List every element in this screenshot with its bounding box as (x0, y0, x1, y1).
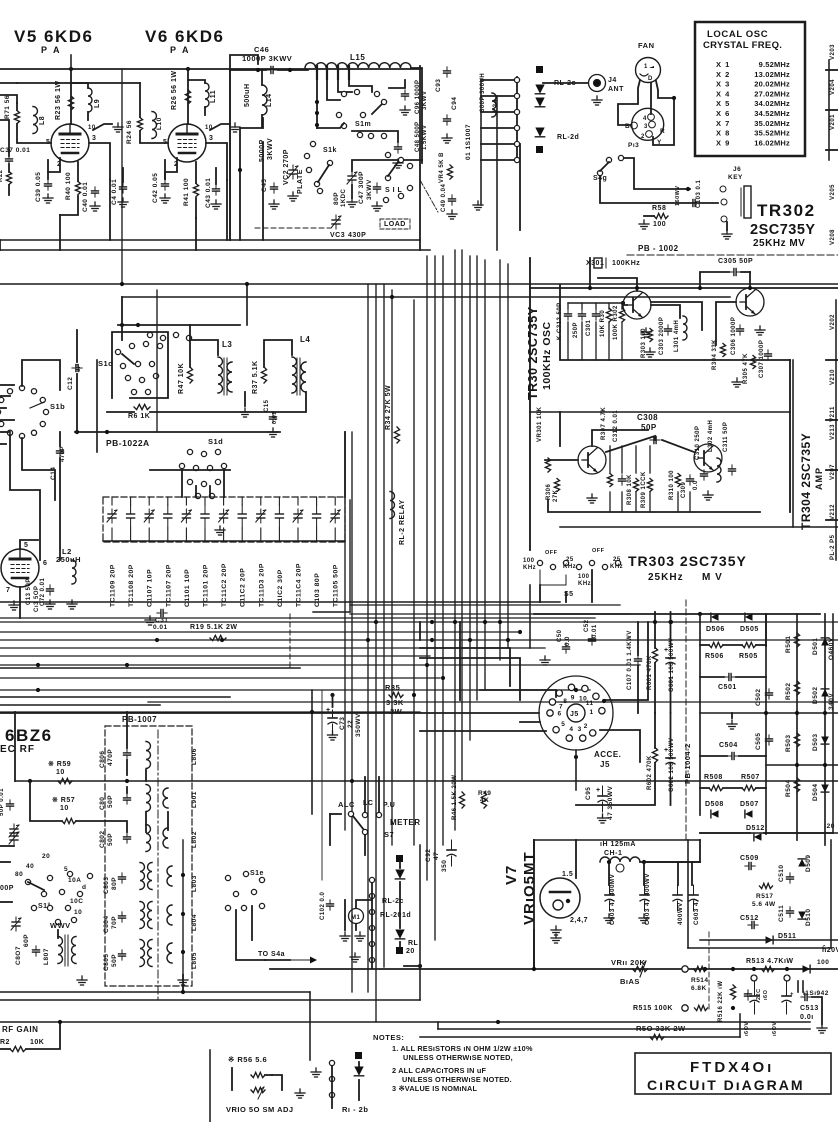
wire C46 left (230, 69, 266, 71)
wire ps gnd stub (731, 713, 733, 718)
ground 80P (347, 198, 357, 207)
svg-text:2W: 2W (390, 707, 403, 716)
wire S7 drop (329, 814, 331, 845)
svg-text:X 4: X 4 (716, 89, 730, 98)
svg-text:47: 47 (433, 852, 440, 860)
svg-text:TC1101 20P: TC1101 20P (203, 564, 210, 607)
svg-text:J5: J5 (570, 711, 579, 718)
svg-text:6: 6 (558, 711, 562, 718)
wire C12 drop (76, 330, 78, 362)
resistor R34 27K 5W (394, 427, 399, 443)
wire V5 pin3 (89, 143, 110, 180)
relay RL-2o armature square (536, 66, 543, 73)
wire S7 up2 (378, 777, 380, 812)
svg-text:V208: V208 (830, 229, 836, 245)
wire c39 (47, 160, 49, 172)
capacitor C94 (444, 115, 451, 125)
diode D510 (798, 912, 806, 920)
svg-text:TC1108 20P: TC1108 20P (128, 564, 135, 607)
tube V7 internals (550, 892, 570, 910)
wire 6bz6 drop3 (76, 821, 127, 832)
svg-text:X 1: X 1 (716, 60, 730, 69)
svg-text:R34 27K 5W: R34 27K 5W (385, 385, 392, 430)
coil bank left 3 (140, 940, 145, 967)
capacitor C14 470P (57, 447, 64, 457)
svg-text:C103 0.1: C103 0.1 (696, 179, 702, 208)
ground V7 (551, 926, 561, 935)
wire bottom rail1 (0, 991, 310, 993)
capacitor C bias (745, 990, 752, 1000)
svg-text:ĥ20V: ĥ20V (822, 945, 838, 954)
wire RL2o stub 2 (481, 95, 514, 97)
ground ps mid (727, 720, 737, 729)
node c601 top (668, 620, 672, 624)
wire v5 cath down (59, 215, 61, 250)
wire C513 gnd (812, 997, 822, 1024)
svg-text:D507: D507 (740, 801, 759, 808)
capacitor C92 47 350WV electrolytic (447, 840, 456, 866)
capacitor C47 (374, 183, 381, 193)
wire reg box right (830, 840, 832, 948)
wire R6 row (107, 411, 134, 413)
svg-text:C301: C301 (586, 319, 592, 336)
wire bus j5col (529, 585, 531, 648)
svg-text:C303 2000P: C303 2000P (659, 317, 665, 355)
wire s1a stub2 (0, 901, 12, 903)
ground C49b (447, 210, 457, 219)
svg-text:V7: V7 (503, 865, 520, 885)
wire J5 pin2 line (600, 730, 640, 762)
svg-text:S I L: S I L (385, 187, 403, 194)
wire pi-net bottom (0, 239, 420, 241)
resistor R517 5.6 4W (760, 883, 773, 888)
svg-text:R309 1CCK: R309 1CCK (641, 471, 647, 508)
wire bias bottom (420, 1036, 740, 1038)
svg-text:C603 47 400WV: C603 47 400WV (644, 873, 651, 925)
wire bus v8 (442, 256, 444, 845)
wire bus v2 (375, 284, 377, 1022)
node ps h2 b (823, 763, 827, 767)
svg-text:S7: S7 (384, 830, 394, 839)
capacitor C501 (725, 674, 735, 681)
wire S1b radial 5 (0, 431, 10, 433)
node cross 9 (125, 663, 129, 667)
svg-text:C14: C14 (50, 467, 57, 480)
capacitor C95 electrolytic (596, 786, 607, 812)
svg-text:9: 9 (571, 695, 575, 702)
wire S7 up1 (364, 777, 366, 812)
wire S7 down (364, 835, 366, 855)
svg-text:C49 0.04: C49 0.04 (441, 183, 447, 212)
wire rl2b col (331, 1066, 333, 1108)
resistor R302 100K (619, 308, 624, 322)
svg-text:L9: L9 (94, 99, 101, 108)
node rec rail b (125, 779, 129, 783)
ground C72 (45, 600, 55, 609)
wire bottom rail2 (0, 999, 420, 1001)
wire J5 pin7 line (0, 712, 539, 714)
ground J4 (592, 96, 602, 105)
svg-text:M V: M V (702, 572, 723, 583)
ground TR303 rail (587, 494, 597, 503)
svg-text:50P: 50P (111, 954, 118, 967)
svg-text:470P: 470P (107, 749, 114, 766)
svg-text:BıAS: BıAS (620, 977, 640, 986)
coil L302 4mH (717, 458, 721, 482)
svg-text:3KWV: 3KWV (422, 91, 428, 110)
connector FAN pins (640, 64, 654, 82)
wire left reg drop (533, 840, 535, 967)
svg-text:C93: C93 (435, 79, 442, 92)
trimmer capacitor TC1105 (330, 509, 340, 523)
capacitor C601 100 500WV electrolytic (664, 645, 675, 678)
diode D507 (745, 810, 753, 818)
svg-text:R49: R49 (478, 790, 491, 797)
svg-text:X 7: X 7 (716, 119, 730, 128)
svg-text:4: 4 (569, 726, 573, 733)
svg-text:V5 6KD6: V5 6KD6 (14, 27, 93, 46)
node ps h2 a (795, 763, 799, 767)
diode D512 (754, 833, 762, 841)
wire bus v20 (96, 360, 98, 452)
svg-text:FTDX4Oı: FTDX4Oı (690, 1059, 774, 1076)
capacitor C802 50P (124, 833, 131, 843)
svg-text:7: 7 (6, 587, 10, 594)
wire right mid (560, 526, 838, 528)
svg-text:R304 33K: R304 33K (712, 339, 718, 370)
coil bank sec 2 (167, 905, 172, 925)
wire right edge stub 6 (826, 469, 838, 471)
wire L14 down (262, 142, 264, 240)
wire sec col (167, 812, 169, 830)
svg-text:L302 4mH: L302 4mH (708, 420, 714, 452)
wire L14 link (262, 118, 264, 128)
svg-text:100: 100 (523, 558, 535, 564)
wire right edge stub 7 (826, 519, 838, 521)
coil L-2 relay (390, 492, 395, 519)
svg-text:Pı3: Pı3 (628, 142, 639, 149)
node VC2 top (238, 168, 242, 172)
svg-text:C806: C806 (99, 750, 106, 768)
node bias left (532, 967, 536, 971)
wire bus v15 (507, 264, 509, 648)
resistor R58 100 (654, 213, 668, 218)
node cross 2 (453, 620, 457, 624)
svg-text:C47 300P: C47 300P (358, 171, 365, 204)
resistor R514 6.8K (694, 966, 707, 971)
svg-text:V201: V201 (830, 114, 836, 130)
svg-text:160WV: 160WV (675, 185, 681, 206)
svg-text:J5: J5 (600, 760, 610, 769)
node cross 4 (483, 620, 487, 624)
resistor R59 (58, 778, 72, 783)
svg-text:D504: D504 (812, 783, 819, 801)
wire tr30x mid (530, 411, 790, 413)
wire ps edge v (832, 614, 834, 833)
capacitor C510 (787, 873, 794, 883)
tube V4 driver (1, 549, 39, 587)
capacitor C312 0.01 (619, 475, 626, 485)
tube V7 VR105MT (540, 878, 580, 918)
diode D508 (711, 810, 719, 818)
wire L806 drop (145, 770, 147, 781)
node cross 7 (366, 638, 370, 642)
svg-text:D: D (648, 76, 653, 82)
svg-text:2SC735Y: 2SC735Y (750, 222, 816, 238)
wire osc bus (560, 285, 790, 360)
svg-text:4K: 4K (480, 797, 489, 804)
ground V6 cathode (160, 194, 170, 203)
svg-text:VRIO 5O SM ADJ: VRIO 5O SM ADJ (226, 1105, 294, 1114)
wire R58 gnd (644, 215, 654, 217)
wire right top drop (419, 66, 421, 250)
wire rl2b arm (358, 1062, 360, 1066)
wire bus joint (419, 622, 421, 640)
node cross 1 (430, 638, 434, 642)
svg-text:1KDC: 1KDC (341, 188, 347, 207)
node osc rail c (698, 286, 702, 290)
wire S1b radial 6 (0, 443, 6, 445)
svg-text:O460V: O460V (828, 637, 835, 660)
svg-text:R508: R508 (704, 774, 723, 781)
resistor VR511 20K pot (633, 966, 648, 971)
wire S5 drops (539, 585, 541, 602)
wire V5 plate lead (70, 69, 72, 124)
wire bus h2 (350, 613, 630, 615)
connector J4 ANT outer (589, 75, 606, 92)
wire left in1 (0, 120, 9, 152)
svg-text:KHz: KHz (563, 564, 576, 570)
wire reg box left (687, 840, 689, 948)
wire V6 grid2 (140, 131, 168, 143)
wire meter link (356, 900, 372, 908)
node bias j1 (752, 967, 756, 971)
resistor R30 10K (606, 308, 611, 322)
resistor R601 470K (652, 648, 657, 663)
node cross 20 (731, 1006, 735, 1010)
svg-text:FAN: FAN (638, 41, 655, 50)
svg-text:NOTES:: NOTES: (373, 1033, 404, 1042)
svg-text:C505: C505 (755, 732, 762, 750)
svg-text:C603 47: C603 47 (693, 898, 700, 925)
svg-text:VC3: VC3 (330, 232, 345, 239)
ground V7 main (551, 934, 561, 943)
svg-text:R515 100K: R515 100K (633, 1005, 673, 1012)
wire rl2c arm (399, 862, 401, 868)
wire r505 lead (723, 644, 742, 646)
wire s1e drop1 (236, 910, 265, 960)
wire 6bz6 drop2 (30, 781, 62, 821)
transistor TR302 (736, 288, 764, 316)
relay RL-2c armature square (396, 855, 403, 862)
svg-text:47 350WV: 47 350WV (607, 785, 614, 820)
node ch1 b (642, 860, 646, 864)
svg-text:V203: V203 (830, 44, 836, 60)
capacitor C12 3P (72, 365, 82, 372)
node cross 3 (468, 638, 472, 642)
wire bus h5 (0, 639, 838, 641)
svg-text:ALC: ALC (338, 800, 355, 809)
svg-text:Rı - 2b: Rı - 2b (342, 1105, 368, 1114)
wire C46 right (278, 69, 308, 71)
wire S1b radial 1 (0, 384, 14, 386)
wire L14 down (240, 115, 262, 240)
wire bus v19 (156, 290, 158, 432)
wire bus v10 (461, 250, 463, 780)
resistor R515 100K (695, 1005, 708, 1010)
wire V6 plate lead (187, 69, 189, 124)
transistor TR303 (578, 446, 606, 474)
svg-text:ACCE.: ACCE. (594, 750, 621, 759)
wire m1 col (344, 900, 346, 930)
svg-text:2 ALL CAPACıTORS IN uF: 2 ALL CAPACıTORS IN uF (392, 1066, 486, 1075)
wire TC box right (349, 500, 351, 612)
svg-text:R37 5.1K: R37 5.1K (252, 360, 259, 394)
wire D512 row2 (764, 832, 833, 834)
wire coil bank riser (182, 840, 184, 975)
capacitor C509 (745, 863, 755, 870)
ground V5 g2 (113, 123, 123, 132)
svg-text:+: + (596, 787, 601, 794)
capacitor C73 22 350WV electrolytic (326, 707, 337, 730)
svg-text:※ R57: ※ R57 (52, 796, 75, 804)
wire bus h3 (0, 621, 838, 623)
wire PB-1002 dashed top (627, 254, 838, 256)
wire amp comp stubs bottom (610, 492, 690, 512)
coil T806 (146, 742, 151, 769)
svg-text:RL-2 RELAY: RL-2 RELAY (399, 499, 406, 545)
wire VC3 dashes (255, 227, 330, 229)
node cross 10 (36, 688, 40, 692)
resistor R602 470K (652, 748, 657, 763)
svg-text:L805: L805 (191, 952, 198, 969)
ground J6 (722, 230, 732, 239)
node cross 16 (574, 688, 578, 692)
svg-text:B: B (625, 123, 630, 130)
coil bank sec 1 (167, 866, 172, 886)
wire bias dashed v (708, 932, 710, 1010)
node cross 24 (672, 96, 676, 100)
wire to54a line (265, 959, 290, 961)
relay RL-2d armature (536, 146, 543, 153)
svg-text:3: 3 (578, 726, 582, 733)
svg-text:25KHz: 25KHz (648, 572, 684, 583)
wire wwv link (57, 930, 59, 938)
svg-text:C73: C73 (339, 717, 346, 730)
svg-text:C310 250P: C310 250P (695, 425, 701, 460)
wire J5 down (575, 750, 577, 790)
svg-text:RL-2d: RL-2d (557, 134, 579, 141)
wire bus v14 (499, 260, 501, 660)
svg-text:V6 6KD6: V6 6KD6 (145, 27, 224, 46)
wire rl2c arm3 (399, 942, 401, 947)
resistor R24 56 (137, 118, 142, 131)
coil bank left 2 (140, 902, 145, 929)
svg-text:L10: L10 (156, 117, 163, 130)
wire key down (600, 176, 718, 203)
relay RL-2b armature square (355, 1052, 362, 1059)
ground C603a (604, 914, 614, 923)
wire grid V5 left (16, 103, 18, 110)
svg-text:R305 47K: R305 47K (743, 353, 749, 384)
capacitor C603 bank 3 (673, 885, 682, 911)
svg-text:KHz: KHz (610, 564, 623, 570)
coil bank sec 3 (167, 943, 172, 963)
svg-text:P A: P A (170, 45, 191, 55)
wire reg box bottom (688, 947, 831, 949)
wire trimmer common (103, 540, 345, 542)
wire antenna in (0, 845, 14, 847)
svg-text:C42 0.05: C42 0.05 (152, 173, 159, 203)
svg-text:ı6O: ı6O (763, 989, 769, 1000)
wire C601 bot lead (670, 678, 672, 713)
capacitor C46 (267, 67, 277, 74)
coil L9 (88, 88, 92, 112)
wire c37 (8, 150, 10, 156)
svg-text:TR30 2SC735Y: TR30 2SC735Y (526, 306, 540, 400)
wire V5 cathode (48, 158, 60, 179)
node coil bank b (181, 912, 185, 916)
node relay j (418, 964, 422, 968)
svg-text:35.52MHz: 35.52MHz (754, 129, 790, 138)
svg-text:P.U: P.U (383, 802, 395, 809)
wire V6 pin3 (206, 143, 227, 180)
diode D502 (821, 689, 829, 697)
resistor R306 27K (554, 479, 559, 492)
wire TR301 collector up (598, 278, 637, 291)
svg-text:V202: V202 (830, 314, 836, 330)
ground relay (473, 201, 483, 210)
wire TC box bottom (313, 611, 350, 613)
diode D506 (711, 613, 719, 621)
capacitor C301 (593, 310, 600, 320)
wire S1b radial 4 (0, 419, 14, 421)
wire R6 row2 (150, 411, 273, 413)
node bottom j (496, 1020, 500, 1024)
ground V5 cathode (43, 194, 53, 203)
svg-text:01 1S1007: 01 1S1007 (465, 124, 472, 160)
resistor R41 100 (193, 184, 198, 197)
svg-text:3: 3 (209, 135, 213, 142)
wire r41 (195, 162, 197, 183)
wire bus h4 (0, 631, 520, 633)
resistor VR10 (251, 1087, 265, 1092)
svg-text:00P: 00P (0, 885, 14, 892)
wire reg out (699, 840, 701, 862)
wire screen diagonal dash (420, 180, 438, 212)
wire rl2c arm2 (399, 882, 401, 928)
node rail b (105, 430, 109, 434)
wire TR30x gnd rail (548, 500, 760, 512)
svg-text:R506: R506 (705, 653, 724, 660)
svg-text:VC2 270P: VC2 270P (283, 149, 290, 185)
diode RL-2o arrow2 (535, 98, 544, 107)
wire S4g lever (600, 162, 609, 171)
wire R602 bot lead (576, 763, 655, 805)
svg-text:R40 100: R40 100 (65, 172, 72, 200)
svg-text:L806: L806 (191, 748, 198, 765)
svg-text:6BZ6: 6BZ6 (5, 726, 53, 745)
wire RL2d out (519, 144, 521, 230)
resistor VR4 5KB (447, 165, 452, 179)
ground coil bank (178, 976, 188, 985)
svg-text:20: 20 (406, 948, 415, 955)
svg-text:ı6OV: ı6OV (744, 1021, 750, 1036)
capacitor C52 0.01 (589, 635, 596, 645)
relay RL-2b contacts (329, 1060, 334, 1097)
wire S1m lever (372, 104, 382, 114)
wire trimmer tops (112, 497, 335, 505)
